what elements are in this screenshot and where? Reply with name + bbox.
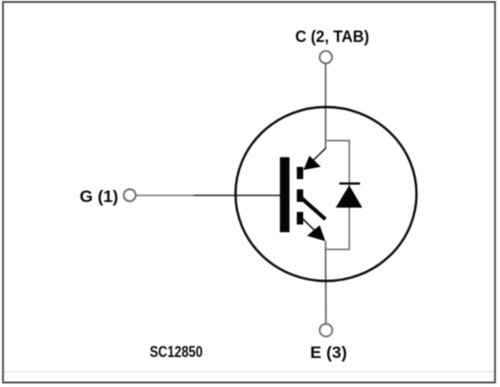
IGBT top channel dash [297, 167, 303, 179]
svg-text:G (1): G (1) [80, 187, 119, 206]
terminal C pad [320, 51, 332, 63]
svg-text:E (3): E (3) [310, 343, 347, 362]
IGBT gate bar [280, 157, 290, 232]
wire diode branch top jog [326, 141, 350, 250]
svg-text:SC12850: SC12850 [150, 344, 203, 361]
terminal E pad [320, 324, 333, 337]
emitter arrow [307, 225, 325, 241]
diode D1 anode triangle [336, 185, 363, 207]
terminal G pad [124, 189, 136, 201]
IGBT body thick diagonal [301, 198, 326, 220]
IGBT bottom channel dash [297, 212, 303, 225]
diode D1 cathode bar [339, 182, 360, 184]
node C terminal wire [325, 63, 327, 149]
collector diagonal wire [312, 148, 326, 161]
faint figure-box remnant line [4, 371, 494, 373]
IGBT middle channel dash [297, 189, 303, 202]
transistor body circle [236, 107, 417, 281]
svg-text:C (2, TAB): C (2, TAB) [295, 27, 369, 46]
wire gate inner [194, 194, 281, 196]
emitter diagonal wire [302, 218, 316, 232]
wire gate outer [136, 194, 194, 196]
collector arrow [303, 156, 320, 170]
node E terminal wire [325, 241, 327, 324]
